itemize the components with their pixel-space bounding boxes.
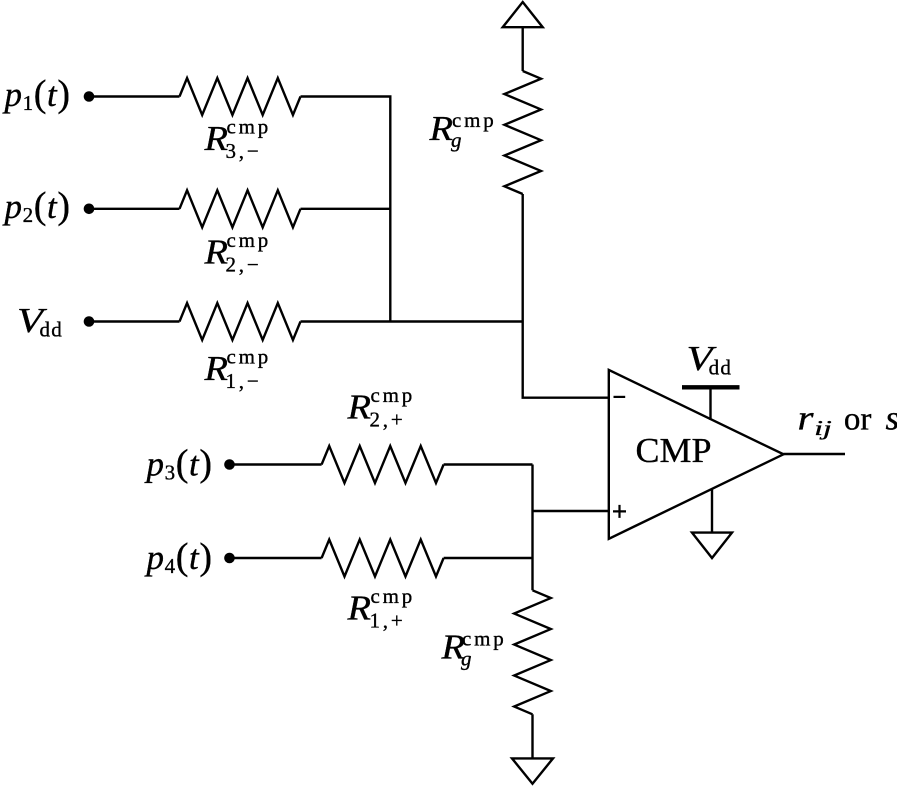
svg-text:R: R: [203, 119, 228, 158]
svg-text:ij: ij: [814, 416, 832, 440]
svg-text:p1(t): p1(t): [2, 73, 71, 115]
svg-text:1,+: 1,+: [370, 609, 406, 633]
svg-text:R: R: [203, 233, 228, 272]
svg-text:p3(t): p3(t): [144, 442, 213, 484]
svg-text:2,−: 2,−: [226, 253, 262, 277]
svg-text:R: R: [428, 109, 453, 148]
svg-text:dd: dd: [40, 317, 64, 341]
svg-text:g: g: [461, 647, 472, 671]
svg-text:s: s: [886, 399, 897, 438]
svg-text:R: R: [346, 589, 371, 628]
svg-text:CMP: CMP: [636, 431, 712, 470]
svg-text:1,−: 1,−: [226, 369, 262, 393]
svg-text:dd: dd: [709, 356, 733, 380]
svg-text:cmp: cmp: [227, 115, 272, 139]
svg-text:3,−: 3,−: [226, 139, 262, 163]
svg-text:cmp: cmp: [371, 584, 416, 608]
svg-text:p4(t): p4(t): [144, 536, 213, 578]
svg-text:R: R: [346, 387, 371, 426]
svg-text:p2(t): p2(t): [2, 185, 71, 227]
svg-text:cmp: cmp: [227, 228, 272, 252]
svg-text:cmp: cmp: [227, 345, 272, 369]
svg-text:R: R: [203, 349, 228, 388]
svg-text:or: or: [844, 402, 872, 438]
svg-text:cmp: cmp: [371, 383, 416, 407]
svg-text:2,+: 2,+: [370, 407, 406, 431]
svg-text:r: r: [798, 399, 814, 438]
svg-text:g: g: [451, 128, 462, 152]
